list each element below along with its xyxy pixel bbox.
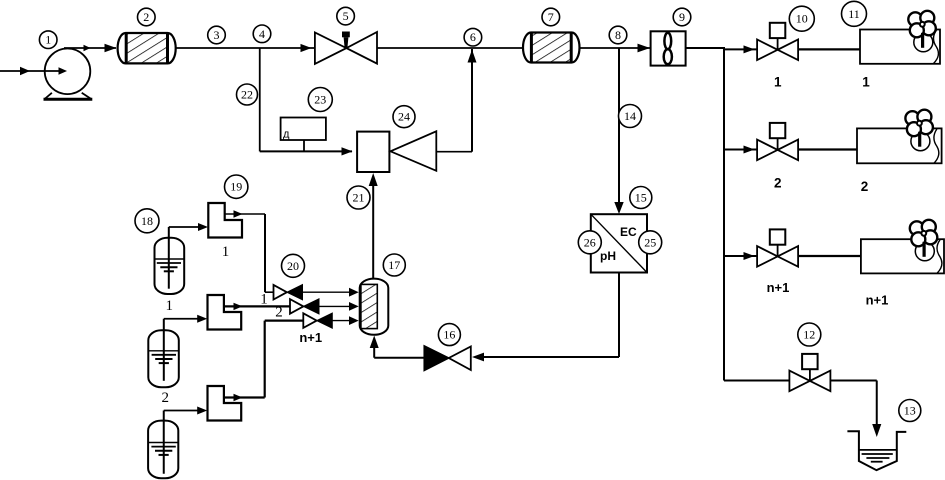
node label 3 (208, 26, 226, 44)
controller 23 (281, 118, 326, 152)
svg-text:2: 2 (275, 305, 283, 321)
wire dosing feed (260, 147, 353, 155)
drain pit 13 (847, 431, 906, 470)
node label 26 (578, 231, 601, 254)
node label 17 (383, 254, 405, 276)
svg-text:3: 3 (214, 28, 220, 42)
valve 16 (424, 346, 471, 371)
node label 16 (438, 324, 460, 346)
svg-text:n+1: n+1 (866, 293, 889, 308)
svg-text:1: 1 (222, 244, 230, 260)
stock tank 1 (155, 227, 185, 294)
dosing pump 24 (357, 132, 389, 172)
injector 1 (19) (208, 203, 242, 238)
svg-text:pH: pH (600, 249, 616, 263)
node label 10 (789, 6, 814, 31)
node label 13 (899, 400, 921, 422)
filter 7 (523, 33, 580, 63)
svg-text:7: 7 (548, 10, 554, 24)
wire check2 to column (319, 302, 359, 311)
node label 14 (619, 105, 642, 128)
svg-text:8: 8 (615, 28, 621, 42)
irrigation zone tank n+1 (861, 239, 944, 273)
svg-text:16: 16 (443, 328, 455, 342)
node label 7 (542, 8, 560, 26)
node label 9 (673, 8, 691, 26)
injector 2 (208, 295, 242, 330)
wire filter2 to valve5 (176, 44, 315, 52)
wire meter9 to manifold (686, 47, 724, 49)
node label 23 (308, 88, 332, 112)
svg-text:23: 23 (314, 93, 326, 107)
wire branch 1 (724, 45, 860, 53)
pump 1 (44, 49, 93, 100)
mixing column 17 (360, 279, 389, 335)
svg-text:25: 25 (644, 235, 656, 249)
svg-text:12: 12 (803, 328, 815, 342)
drain valve 12 (789, 354, 830, 391)
wire drain branch (724, 381, 881, 438)
flow meter 9 (651, 31, 686, 65)
svg-text:17: 17 (388, 258, 400, 272)
stock tank n+1 (148, 411, 178, 479)
svg-text:1: 1 (260, 292, 268, 308)
wire pump to filter (64, 44, 117, 53)
svg-text:д: д (283, 129, 290, 141)
node label 21 (347, 186, 370, 209)
svg-text:22: 22 (241, 88, 253, 102)
node label 22 (237, 84, 258, 105)
node label 18 (135, 209, 159, 233)
svg-text:9: 9 (679, 10, 685, 24)
svg-text:2: 2 (774, 176, 782, 191)
svg-text:26: 26 (584, 235, 596, 249)
wire injector1 out (225, 210, 274, 292)
wire EC outlet to valve16 (472, 273, 619, 362)
node label 4 (253, 25, 271, 43)
solenoid valve branch 2 (757, 123, 798, 160)
wire tank3 to injector3 (164, 407, 207, 415)
svg-text:5: 5 (343, 9, 349, 23)
stock tank 2 (148, 319, 179, 387)
filter 2 (118, 33, 176, 63)
wire check1 to column (303, 288, 359, 297)
injector n+1 (208, 386, 242, 421)
irrigation zone tank 11 (860, 30, 940, 64)
svg-text:6: 6 (470, 30, 476, 44)
wire tank2 to injector2 (164, 315, 207, 323)
svg-text:15: 15 (635, 191, 647, 205)
wire node8 drop to EC (614, 48, 623, 214)
wire valve5 to filter7 (377, 47, 523, 49)
node label 12 (798, 323, 821, 346)
wire suction into dosing pump (369, 173, 378, 279)
node label 8 (609, 26, 627, 44)
node label 2 (138, 8, 156, 26)
node label 20 (282, 254, 305, 277)
check valve line 1 (274, 285, 303, 300)
svg-text:2: 2 (162, 390, 170, 406)
wire filter7 to meter9 (580, 44, 651, 53)
svg-text:19: 19 (230, 180, 242, 194)
svg-text:n+1: n+1 (299, 330, 322, 345)
svg-text:18: 18 (141, 214, 153, 228)
svg-text:13: 13 (904, 404, 916, 418)
irrigation zone tank 2 (857, 128, 942, 163)
wire cone to node6 riser (436, 49, 476, 152)
wire tank1 to injector1 (169, 223, 208, 231)
node label 19 (225, 175, 248, 198)
wire injector3 out (224, 321, 303, 402)
sprinkler zone n+1 (910, 220, 938, 261)
node label 6 (464, 28, 482, 46)
wire inlet line (0, 67, 67, 75)
svg-text:20: 20 (287, 259, 299, 273)
wire node4 drop (259, 48, 261, 151)
wire distribution manifold vertical (723, 47, 725, 381)
valve 5 (315, 32, 377, 64)
node label 15 (630, 187, 652, 209)
node label 25 (639, 231, 662, 254)
svg-text:11: 11 (848, 7, 860, 21)
sprinkler zone 1 (908, 11, 936, 52)
wire check3 to column (332, 316, 358, 325)
svg-text:10: 10 (796, 12, 808, 26)
node label 1 (39, 31, 57, 49)
check valve line n+1 (303, 313, 332, 328)
EC pH sensor unit (591, 214, 647, 272)
svg-text:1: 1 (45, 33, 51, 47)
sprinkler zone 2 (905, 110, 933, 151)
wire valve16 to column (370, 336, 425, 358)
solenoid valve branch n+1 (757, 229, 798, 266)
svg-text:1: 1 (774, 75, 782, 90)
svg-text:24: 24 (398, 110, 410, 124)
solenoid valve 10 (757, 23, 798, 60)
svg-text:14: 14 (624, 109, 636, 123)
wire branch n+1 (724, 252, 861, 260)
svg-text:21: 21 (353, 191, 365, 205)
node label 24 (393, 106, 415, 128)
node label 5 (337, 7, 355, 25)
wire injector2 out (224, 303, 290, 310)
check valve line 2 (290, 299, 319, 314)
svg-text:n+1: n+1 (767, 280, 790, 295)
svg-text:2: 2 (143, 10, 149, 24)
node label 11 (842, 1, 867, 26)
svg-text:1: 1 (862, 75, 870, 90)
svg-text:EC: EC (620, 225, 637, 239)
svg-text:4: 4 (259, 27, 265, 41)
venturi cone 24 (390, 131, 436, 171)
svg-text:1: 1 (165, 298, 173, 314)
wire branch 2 (724, 146, 857, 154)
svg-text:2: 2 (861, 179, 869, 194)
